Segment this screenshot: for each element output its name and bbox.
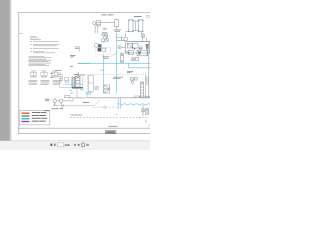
accumulator xyxy=(120,53,123,63)
accessory valve symbol 2 xyxy=(41,71,47,76)
feed lines down to valve block xyxy=(95,25,98,34)
pilot dash row xyxy=(100,69,104,72)
solenoid dark block upper xyxy=(98,44,101,47)
pump housing box xyxy=(88,76,93,92)
dashed pump enclosure xyxy=(88,74,146,97)
cluster caption xyxy=(50,70,62,78)
legend bar blue xyxy=(22,118,30,119)
accessory valve symbol 3 xyxy=(51,71,57,76)
title text xyxy=(101,13,113,16)
spec text columns xyxy=(29,80,63,84)
parts list table xyxy=(29,56,52,66)
reservoir cylinder xyxy=(115,19,119,41)
cooler base dark bar xyxy=(72,87,83,89)
main valve block xyxy=(95,34,109,47)
inner caption xyxy=(113,77,123,79)
oil cooler radiator left tank xyxy=(129,20,143,32)
pilot valve box xyxy=(102,48,106,51)
hydraulic oil cooler column A xyxy=(72,77,75,87)
thermal bypass valve box xyxy=(126,42,150,53)
radiator corner dots xyxy=(128,20,143,32)
filter manifold dark marks xyxy=(138,51,141,54)
cooler drain drop xyxy=(76,89,78,98)
radiator label xyxy=(134,15,142,18)
drain centerline with diamond xyxy=(93,100,118,109)
small solenoid valve cluster xyxy=(58,72,62,78)
frame corner mark right xyxy=(148,124,150,126)
enclosure caption right xyxy=(127,71,133,73)
stamp corner marks xyxy=(54,104,63,107)
inline coupler box xyxy=(65,96,71,98)
viewer bottom toolbar strip xyxy=(0,141,150,150)
toolbar page controls xyxy=(50,143,88,147)
legend labels xyxy=(32,112,47,121)
page edge shadow xyxy=(9,0,12,141)
right margin drain line xyxy=(148,42,150,98)
cyan glyphs in valve block xyxy=(102,41,104,42)
legend bar purple xyxy=(22,121,30,122)
junction boxes left of cooler xyxy=(60,77,68,82)
gauge riser xyxy=(117,37,126,41)
sheet reference text xyxy=(109,125,118,128)
cyan return line at cooler xyxy=(63,76,83,87)
green accent in valve block xyxy=(106,37,109,39)
page background xyxy=(0,0,150,150)
twin gear pump circles xyxy=(53,98,73,106)
dashed pilot enclosure xyxy=(96,47,111,54)
charge filter circle xyxy=(124,34,128,42)
cooler bypass manifold line xyxy=(126,41,150,43)
legend bar green xyxy=(22,115,30,116)
drawing frame border xyxy=(18,12,150,133)
feed line labels xyxy=(103,28,107,30)
label TO TRANSMISSION with brace xyxy=(75,47,80,52)
enclosure right edge solid xyxy=(144,74,146,97)
legend bar red xyxy=(22,113,30,114)
boundary tick marks xyxy=(140,116,148,122)
relief drain line xyxy=(146,49,148,56)
note text mid xyxy=(83,101,89,104)
suction line to cylinder xyxy=(100,21,114,23)
valve block label xyxy=(102,31,107,34)
pressure gauge xyxy=(118,46,126,49)
main control valve caption xyxy=(103,57,109,59)
charge filter column xyxy=(140,82,143,98)
magenta pilot line xyxy=(60,78,72,88)
cyan return label row xyxy=(78,63,91,64)
sheet number box xyxy=(105,131,116,134)
filter manifold box xyxy=(137,50,148,56)
radiator corner tick xyxy=(147,16,150,18)
spring relief dark cluster xyxy=(146,44,148,49)
legend box xyxy=(19,110,50,125)
engine pump motor circle xyxy=(93,21,101,26)
viewer left gray strip xyxy=(0,0,9,141)
accessory valve symbol 1 xyxy=(30,71,36,76)
radiator inlet stub xyxy=(126,30,129,32)
dashes label row xyxy=(71,114,83,117)
cyan main return line xyxy=(90,37,150,94)
cyan tank wavy line xyxy=(117,104,150,105)
symbol captions xyxy=(30,76,57,79)
notes text block xyxy=(30,36,60,53)
charge pump circle xyxy=(131,57,138,61)
servo boxes cluster xyxy=(130,78,137,85)
vent riser xyxy=(146,38,148,42)
tank dash marks xyxy=(116,113,118,116)
servo drain risers xyxy=(147,77,148,86)
small gray labels mid-left xyxy=(70,55,76,67)
tank fittings column xyxy=(146,108,149,114)
gear pump label xyxy=(45,99,50,101)
reservoir label xyxy=(114,30,122,32)
boundary dashed line bottom xyxy=(70,117,148,119)
cyan drop lines to tank xyxy=(118,98,120,109)
case drain line xyxy=(55,98,95,106)
piston pump circle xyxy=(95,86,99,90)
stamp text xyxy=(44,108,63,111)
pump control valve stack xyxy=(104,85,110,93)
fan motor circle xyxy=(141,32,145,42)
enclosure caption left xyxy=(74,73,85,76)
hydraulic oil cooler column B xyxy=(75,72,80,87)
cyan small labels near cooler xyxy=(69,90,92,95)
main suction bus line xyxy=(68,97,150,99)
tank motor circle xyxy=(141,105,144,117)
bus components right xyxy=(135,96,150,98)
bypass valve dark dots xyxy=(132,47,135,49)
pilot filter dark block xyxy=(98,48,101,51)
bypass valve text xyxy=(139,47,143,50)
margin tick xyxy=(20,32,23,35)
leader line xyxy=(110,52,118,57)
check valve circle xyxy=(125,50,133,54)
